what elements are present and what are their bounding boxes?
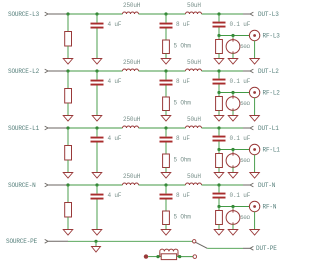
svg-text:50Ω: 50Ω (240, 157, 250, 164)
node junction N-e (217, 205, 220, 208)
wire N R terminator to ground (218, 225, 220, 230)
svg-text:DUT-L3: DUT-L3 (258, 11, 279, 18)
port SOURCE-L3 (8, 11, 68, 18)
wire PE main line (68, 240, 192, 242)
node junction L1-b (95, 126, 98, 129)
wire resistor stem L1 (67, 128, 69, 146)
wire L3 RF node (219, 28, 249, 36)
svg-text:8 uF: 8 uF (176, 135, 190, 142)
wire RF-N shield to ground (254, 212, 256, 230)
svg-text:SOURCE-L3: SOURCE-L3 (8, 11, 40, 18)
ground (161, 116, 171, 122)
node junction L2-a (66, 69, 69, 72)
inductor L11 250uH (123, 2, 141, 14)
node junction L2-c (164, 69, 167, 72)
svg-text:DUT-N: DUT-N (258, 182, 276, 189)
port RF-N BNC connector (249, 201, 276, 211)
ground (92, 173, 102, 179)
node junction N-c (164, 183, 167, 186)
svg-text:RF-L3: RF-L3 (263, 33, 281, 40)
svg-text:SOURCE-L2: SOURCE-L2 (8, 68, 40, 75)
node junction L1-c (164, 126, 167, 129)
wire L2 R 5 Ohm to ground (165, 111, 167, 116)
wire L1 node to R terminator (218, 150, 220, 154)
ground (214, 116, 224, 122)
svg-text:8 uF: 8 uF (176, 21, 190, 28)
ground (63, 59, 73, 65)
resistor R23 (216, 97, 223, 111)
wire N C 8uF to R 5 Ohm (165, 200, 167, 212)
wire N meter to ground (232, 224, 234, 229)
wire main line N (68, 184, 243, 186)
wire PE ground stub (95, 241, 97, 246)
wire N C 4uF to ground (96, 200, 98, 230)
resistor R43 (216, 211, 223, 225)
wire L1 C 4uF to ground (96, 143, 98, 173)
wire L2 R to ground (67, 103, 69, 116)
wire N node to R terminator (218, 207, 220, 211)
ground (92, 116, 102, 122)
ground (214, 59, 224, 65)
wire L2 node to R terminator (218, 93, 220, 97)
port RF-L1 BNC connector (249, 144, 280, 154)
wire main line L1 (68, 127, 243, 129)
ground (214, 173, 224, 179)
capacitor C33 0.1uF (213, 128, 251, 142)
ground (228, 173, 238, 179)
wire relay left (148, 256, 161, 258)
capacitor C42 8uF (160, 185, 191, 200)
node junction L1-e (217, 148, 220, 151)
wire L3 C 8uF to R 5 Ohm (165, 29, 167, 41)
port DUT-L1 (243, 125, 279, 132)
svg-text:SOURCE-PE: SOURCE-PE (6, 238, 38, 245)
port DUT-N (243, 182, 276, 189)
svg-text:50uH: 50uH (187, 173, 201, 180)
ground (63, 173, 73, 179)
wire relay right (177, 256, 193, 258)
node junction PE-a (94, 240, 97, 243)
meter 50 Ohm receiver L1 (226, 150, 251, 169)
svg-text:RF-L1: RF-L1 (263, 147, 281, 154)
ground (228, 230, 238, 236)
node junction L2-e (217, 91, 220, 94)
node junction L2-b (95, 69, 98, 72)
node junction PE-c (178, 255, 181, 258)
capacitor C43 0.1uF (213, 185, 251, 199)
wire L3 R 5 Ohm to ground (165, 54, 167, 59)
wire L2 C 8uF to R 5 Ohm (165, 86, 167, 98)
relay K1 terminal pad right (193, 255, 197, 259)
svg-text:0.1 uF: 0.1 uF (230, 192, 251, 199)
ground (161, 173, 171, 179)
capacitor C32 8uF (160, 128, 191, 143)
wire N RF node (219, 199, 249, 207)
ground (92, 59, 102, 65)
resistor R13 (216, 40, 223, 54)
svg-text:RF-L2: RF-L2 (263, 90, 281, 97)
wire L1 R terminator to ground (218, 168, 220, 173)
port DUT-PE (243, 245, 277, 252)
node junction L3-e (217, 34, 220, 37)
wire L3 C 4uF to ground (96, 29, 98, 59)
wire L1 C 8uF to R 5 Ohm (165, 143, 167, 155)
svg-text:4 uF: 4 uF (108, 192, 122, 199)
port RF-L2 BNC connector (249, 87, 280, 97)
wire resistor stem L3 (67, 14, 69, 32)
node junction L1-a (66, 126, 69, 129)
wire L3 R to ground (67, 46, 69, 59)
svg-text:50Ω: 50Ω (240, 43, 250, 50)
relay K1 terminal pad left (144, 254, 148, 258)
node junction L3-c (164, 12, 167, 15)
capacitor C31 4uF (91, 128, 122, 143)
wire N R 5 Ohm to ground (165, 225, 167, 230)
svg-text:5 Ohm: 5 Ohm (174, 157, 192, 164)
ground (63, 116, 73, 122)
svg-text:4 uF: 4 uF (108, 21, 122, 28)
resistor R22 5 Ohm (163, 97, 192, 111)
svg-text:250uH: 250uH (123, 59, 141, 66)
inductor L22 50uH (186, 59, 202, 71)
svg-text:DUT-L2: DUT-L2 (258, 68, 279, 75)
capacitor C11 4uF (91, 14, 122, 29)
wire L1 R 5 Ohm to ground (165, 168, 167, 173)
wire main line L3 (68, 13, 243, 15)
ground (228, 116, 238, 122)
wire PE to DUT-PE (207, 247, 243, 249)
resistor R32 5 Ohm (163, 154, 192, 168)
svg-text:4 uF: 4 uF (108, 78, 122, 85)
svg-text:50Ω: 50Ω (240, 100, 250, 107)
ground (63, 230, 73, 236)
wire L3 R terminator to ground (218, 54, 220, 59)
capacitor C22 8uF (160, 71, 191, 86)
resistor R12 5 Ohm (163, 40, 192, 54)
node junction L3-d (217, 12, 220, 15)
ground (214, 230, 224, 236)
node junction N-d (217, 183, 220, 186)
svg-text:8 uF: 8 uF (176, 78, 190, 85)
node junction N-b (95, 183, 98, 186)
port RF-L3 BNC connector (249, 30, 280, 40)
node junction L2-f (231, 91, 234, 94)
meter 50 Ohm receiver L2 (226, 93, 251, 112)
node junction L3-a (66, 12, 69, 15)
wire resistor stem N (67, 185, 69, 203)
capacitor C13 0.1uF (213, 14, 251, 28)
svg-text:DUT-L1: DUT-L1 (258, 125, 279, 132)
port SOURCE-PE (6, 238, 68, 245)
port DUT-L2 (243, 68, 279, 75)
ground (228, 59, 238, 65)
wire RF-L2 shield to ground (254, 98, 256, 116)
inductor L42 50uH (186, 173, 202, 185)
capacitor C23 0.1uF (213, 71, 251, 85)
svg-text:SOURCE-N: SOURCE-N (8, 182, 36, 189)
svg-text:8 uF: 8 uF (176, 192, 190, 199)
svg-text:250uH: 250uH (123, 2, 141, 9)
node junction L1-d (217, 126, 220, 129)
ground (250, 116, 260, 122)
wire L1 RF node (219, 142, 249, 150)
svg-text:50uH: 50uH (187, 2, 201, 9)
capacitor C21 4uF (91, 71, 122, 86)
resistor R21 (65, 89, 72, 104)
resistor R17 relay damping (161, 254, 176, 260)
inductor L32 50uH (186, 116, 202, 128)
node junction N-a (66, 183, 69, 186)
wire L2 meter to ground (232, 110, 234, 115)
port DUT-L3 (243, 11, 279, 18)
wire resistor stem L2 (67, 71, 69, 89)
capacitor C41 4uF (91, 185, 122, 200)
wire RF-L3 shield to ground (254, 41, 256, 59)
port SOURCE-N (8, 182, 68, 189)
resistor R11 (65, 32, 72, 47)
ground (92, 230, 102, 236)
svg-text:50uH: 50uH (187, 116, 201, 123)
node junction N-f (231, 205, 234, 208)
svg-text:DUT-PE: DUT-PE (256, 245, 277, 252)
wire L2 C 4uF to ground (96, 86, 98, 116)
svg-text:250uH: 250uH (123, 116, 141, 123)
node junction PE-b (156, 255, 159, 258)
ground (161, 230, 171, 236)
node junction L3-f (231, 34, 234, 37)
port SOURCE-L2 (8, 68, 68, 75)
svg-text:0.1 uF: 0.1 uF (230, 78, 251, 85)
wire L1 meter to ground (232, 167, 234, 172)
ground (250, 173, 260, 179)
wire L1 R to ground (67, 160, 69, 173)
resistor R33 (216, 154, 223, 168)
ground (92, 247, 101, 253)
inductor L41 250uH (123, 173, 141, 185)
switch S1 contact (193, 240, 196, 243)
svg-text:50Ω: 50Ω (240, 214, 250, 221)
resistor R31 (65, 146, 72, 161)
inductor L21 250uH (123, 59, 141, 71)
svg-text:5 Ohm: 5 Ohm (174, 100, 192, 107)
ground (161, 59, 171, 65)
svg-text:5 Ohm: 5 Ohm (174, 43, 192, 50)
node junction L2-d (217, 69, 220, 72)
svg-text:SOURCE-L1: SOURCE-L1 (8, 125, 40, 132)
wire RF-L1 shield to ground (254, 155, 256, 173)
inductor L31 250uH (123, 116, 141, 128)
wire N R to ground (67, 217, 69, 230)
wire L2 R terminator to ground (218, 111, 220, 116)
resistor R41 (65, 203, 72, 218)
ground (250, 59, 260, 65)
relay K1 coil (160, 249, 178, 256)
wire L2 RF node (219, 85, 249, 93)
svg-text:4 uF: 4 uF (108, 135, 122, 142)
svg-text:50uH: 50uH (187, 59, 201, 66)
port SOURCE-L1 (8, 125, 68, 132)
svg-text:5 Ohm: 5 Ohm (174, 214, 192, 221)
wire main line L2 (68, 70, 243, 72)
capacitor C12 8uF (160, 14, 191, 29)
resistor R42 5 Ohm (163, 211, 192, 225)
svg-text:0.1 uF: 0.1 uF (230, 135, 251, 142)
svg-text:0.1 uF: 0.1 uF (230, 21, 251, 28)
svg-text:250uH: 250uH (123, 173, 141, 180)
inductor L12 50uH (186, 2, 202, 14)
meter 50 Ohm receiver L3 (226, 36, 251, 55)
node junction L3-b (95, 12, 98, 15)
svg-text:RF-N: RF-N (263, 204, 277, 211)
wire L3 meter to ground (232, 53, 234, 58)
wire L3 node to R terminator (218, 36, 220, 40)
switch S1 lever (196, 242, 208, 248)
ground (250, 230, 260, 236)
meter 50 Ohm receiver N (226, 207, 251, 226)
node junction L1-f (231, 148, 234, 151)
